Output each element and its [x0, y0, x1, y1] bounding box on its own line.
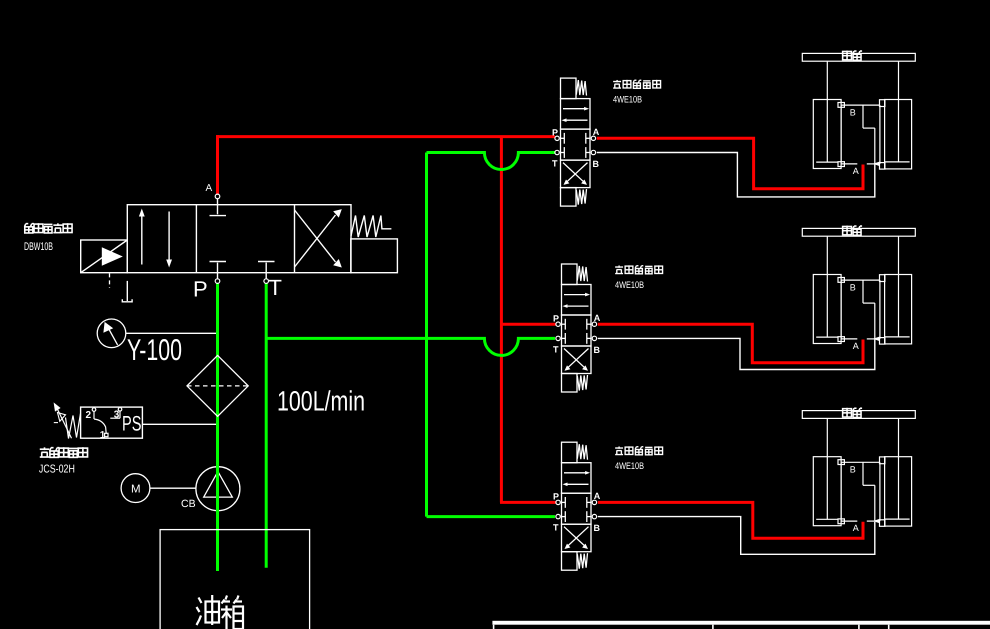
- svg-text:Y-100: Y-100: [127, 334, 182, 367]
- svg-text:PS: PS: [122, 413, 142, 436]
- svg-text:A: A: [206, 183, 213, 194]
- svg-text:2: 2: [86, 410, 92, 421]
- svg-text:100L/min: 100L/min: [277, 386, 365, 417]
- svg-text:CB: CB: [181, 498, 196, 510]
- svg-text:1: 1: [100, 430, 106, 441]
- svg-text:P: P: [193, 277, 208, 302]
- svg-text:DBW10B: DBW10B: [24, 241, 53, 253]
- svg-text:JCS-02H: JCS-02H: [39, 464, 75, 476]
- svg-text:M: M: [131, 484, 141, 496]
- svg-text:T: T: [269, 275, 282, 300]
- svg-text:3: 3: [114, 410, 120, 421]
